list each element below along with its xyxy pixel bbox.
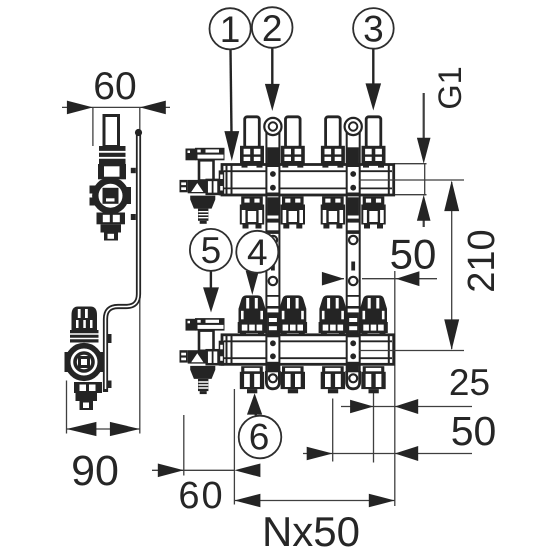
svg-text:3: 3 <box>363 9 384 50</box>
svg-text:2: 2 <box>262 8 283 49</box>
svg-text:Nx50: Nx50 <box>262 508 360 548</box>
svg-text:25: 25 <box>449 362 490 403</box>
svg-text:60: 60 <box>178 475 224 517</box>
svg-text:6: 6 <box>249 417 270 458</box>
svg-text:90: 90 <box>71 447 119 495</box>
svg-text:5: 5 <box>201 230 222 271</box>
svg-text:60: 60 <box>93 65 136 108</box>
svg-text:G1: G1 <box>432 66 468 109</box>
svg-text:1: 1 <box>220 9 241 50</box>
svg-text:210: 210 <box>461 229 503 292</box>
svg-text:4: 4 <box>247 232 268 273</box>
svg-text:50: 50 <box>390 231 437 278</box>
svg-text:50: 50 <box>451 408 497 454</box>
